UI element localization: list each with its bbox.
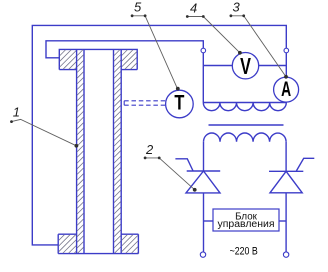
label 2 leader bbox=[145, 158, 195, 190]
svg-text:1: 1 bbox=[13, 104, 20, 119]
svg-text:T: T bbox=[174, 90, 184, 114]
terminal: right input terminal bbox=[284, 48, 289, 53]
furnace 1: top flange hatching bbox=[60, 50, 76, 69]
svg-text:4: 4 bbox=[190, 1, 197, 16]
thermocouple probe: dashed double line into furnace bbox=[124, 101, 166, 105]
transformer secondary winding bbox=[204, 133, 287, 142]
ammeter 3: circle bbox=[274, 77, 299, 102]
label 5 leader bbox=[132, 16, 177, 89]
svg-text:управления: управления bbox=[218, 219, 275, 230]
thyristor VS2: triangle bbox=[270, 171, 302, 193]
thermometer 5: circle bbox=[166, 90, 194, 118]
terminal: mains left bbox=[200, 252, 205, 257]
wire: outer loop from bottom flange left, left side, top side to right vertical bbox=[32, 25, 286, 245]
furnace 1: left tube wall bbox=[77, 49, 84, 253]
wire: VS1 anode down to terminal bbox=[203, 193, 205, 252]
control unit box bbox=[213, 209, 279, 231]
wire: voltmeter branch bbox=[203, 65, 286, 67]
furnace 1: bottom flange hatching bbox=[59, 235, 76, 253]
control unit box stubs bbox=[204, 220, 214, 222]
wire: VS2 anode down to terminal bbox=[285, 193, 287, 252]
wire: secondary left lead down to thyristor bbox=[203, 142, 205, 171]
svg-text:2: 2 bbox=[145, 142, 154, 157]
furnace 1: top flange outline bbox=[59, 49, 137, 69]
furnace 1: right tube wall bbox=[114, 49, 122, 253]
thyristor VS2: gate lead bbox=[296, 158, 314, 171]
wire: inner loop from top flange left to left vertical bbox=[46, 41, 203, 103]
label 4 leader bbox=[187, 17, 240, 53]
voltmeter 4: circle bbox=[232, 52, 258, 78]
svg-text:V: V bbox=[240, 53, 251, 79]
wire: secondary right lead down to thyristor bbox=[285, 142, 287, 172]
transformer core bbox=[209, 124, 284, 126]
label 3 leader bbox=[231, 16, 286, 77]
svg-text:A: A bbox=[281, 78, 291, 101]
terminal: mains right bbox=[283, 252, 288, 257]
svg-text:5: 5 bbox=[134, 0, 142, 15]
thyristor VS2: cathode bar bbox=[269, 170, 303, 172]
terminal: left input terminal bbox=[201, 48, 206, 53]
thyristor VS1: triangle bbox=[186, 171, 220, 193]
svg-text:~220 В: ~220 В bbox=[230, 246, 258, 258]
thyristor VS1 (pos 2): cathode bar bbox=[187, 170, 221, 172]
label 1 leader bbox=[12, 119, 77, 145]
furnace 1: bottom flange outline bbox=[58, 234, 138, 253]
svg-text:3: 3 bbox=[233, 0, 241, 15]
thyristor VS1: gate lead bbox=[175, 159, 193, 171]
transformer primary winding bbox=[203, 103, 286, 111]
